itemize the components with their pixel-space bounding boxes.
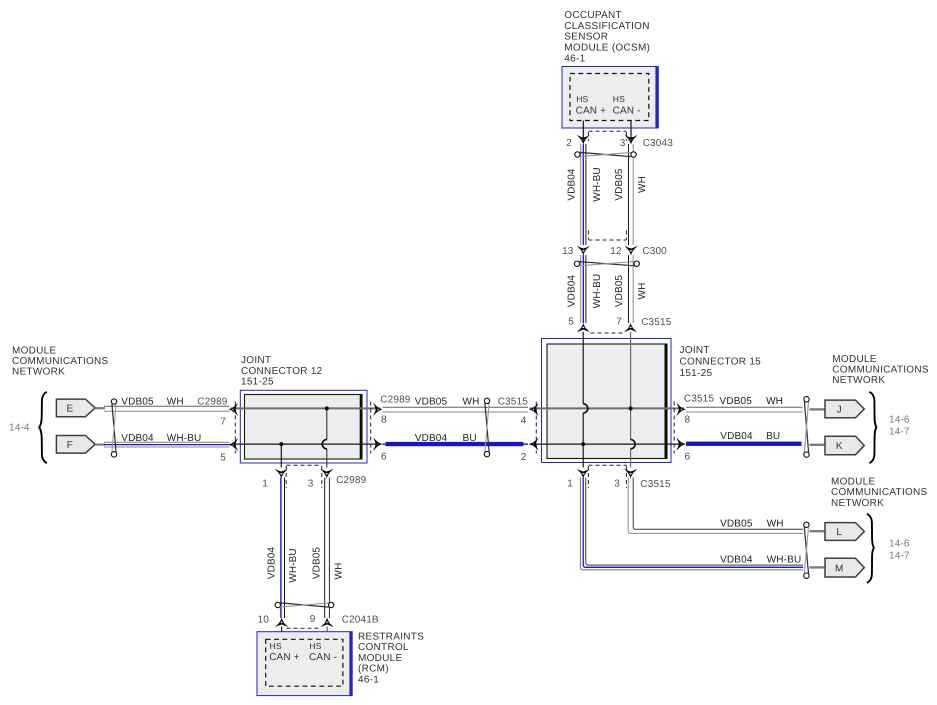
wire VDB05 WH (C2989 to C2041B) [324, 478, 326, 619]
wire OCSM pin3 lead [630, 121, 632, 143]
connector C3515 bottom dashed stubs [587, 466, 589, 488]
svg-text:VDB05: VDB05 [720, 519, 753, 530]
connector C2989 bottom dashed stubs [285, 466, 287, 488]
svg-text:46-1: 46-1 [564, 53, 585, 64]
svg-text:46-1: 46-1 [358, 675, 379, 686]
svg-text:MODULE: MODULE [12, 346, 57, 357]
svg-text:7: 7 [220, 417, 226, 428]
svg-text:BU: BU [463, 433, 477, 444]
jc12 right arrow row2 [373, 438, 383, 451]
svg-text:C3515: C3515 [641, 317, 672, 328]
svg-text:C3515: C3515 [684, 394, 715, 405]
svg-text:C2989: C2989 [336, 475, 367, 486]
svg-text:RESTRAINTS: RESTRAINTS [358, 631, 424, 642]
svg-text:VDB05: VDB05 [415, 397, 448, 408]
wire VDB05 WH (E to C2989) [104, 405, 230, 407]
jc12 internal wire row2 [231, 443, 381, 445]
svg-text:M: M [835, 563, 843, 574]
svg-text:151-25: 151-25 [680, 368, 713, 379]
wire VDB05 WH (C3043 to C300) [628, 144, 630, 245]
wire hop jc12 row2 [322, 440, 327, 449]
connector C3043 arrow pin3 [625, 135, 638, 145]
wire RCM pin9 lead [326, 627, 328, 641]
svg-text:10: 10 [258, 615, 270, 626]
svg-text:COMMUNICATIONS: COMMUNICATIONS [831, 487, 928, 498]
jc12 left arrow row2 [228, 438, 238, 451]
jc15 right arrow row2 [676, 438, 686, 451]
svg-text:C2041B: C2041B [342, 615, 379, 626]
connector C2041B arrow pin9 [321, 618, 334, 628]
svg-text:VDB04: VDB04 [415, 433, 448, 444]
svg-text:7: 7 [616, 317, 622, 328]
svg-text:CONNECTOR 12: CONNECTOR 12 [241, 366, 323, 377]
svg-text:VDB04: VDB04 [567, 275, 578, 308]
svg-text:JOINT: JOINT [241, 355, 271, 366]
junction dot jc15 row1 pin3 wire [629, 406, 633, 410]
svg-text:C3515: C3515 [498, 396, 529, 407]
svg-text:BU: BU [766, 431, 780, 442]
svg-text:1: 1 [567, 479, 573, 490]
brace right (L/M) [867, 514, 874, 583]
joint connector 15 box [542, 339, 672, 463]
svg-text:6: 6 [381, 451, 387, 462]
jc15 bottom arrow pin3 [624, 469, 637, 479]
wire stub J [810, 408, 826, 410]
wire VDB04 WH-BU (C300 to C3515) [580, 255, 582, 323]
svg-text:2: 2 [566, 138, 572, 149]
twisted pair symbol below C300 [579, 262, 634, 266]
jc12 right dashed boundary [370, 402, 372, 454]
module OCSM box [562, 67, 658, 129]
svg-text:COMMUNICATIONS: COMMUNICATIONS [12, 356, 109, 367]
wire VDB05 WH (C3515 to L) [628, 478, 803, 534]
svg-text:14-7: 14-7 [889, 551, 910, 562]
svg-text:MODULE: MODULE [831, 476, 876, 487]
wire stub M [810, 566, 826, 568]
svg-text:NETWORK: NETWORK [831, 498, 884, 509]
svg-text:J: J [837, 405, 842, 416]
svg-text:(RCM): (RCM) [358, 664, 389, 675]
junction dot jc15 row2 pin1 wire [581, 442, 585, 446]
connector C2041B arrow pin10 [275, 618, 288, 628]
svg-text:14-4: 14-4 [9, 423, 30, 434]
svg-text:9: 9 [310, 614, 316, 625]
svg-text:COMMUNICATIONS: COMMUNICATIONS [832, 364, 929, 375]
svg-text:C3043: C3043 [643, 138, 674, 149]
svg-text:OCCUPANT: OCCUPANT [564, 10, 622, 21]
connector L [825, 523, 864, 541]
jc15 internal vertical wire from pin5 to pin1 [582, 332, 584, 468]
jc12 bottom arrow pin1 [275, 469, 288, 479]
wire VDB04 WH-BU (F to C2989) [104, 441, 230, 443]
connector C300 arrow pin12 [625, 246, 638, 256]
connector C3515 bottom dashed line [589, 464, 627, 466]
jc12 right arrow row1 [373, 403, 383, 416]
connector F [56, 436, 95, 454]
svg-text:12: 12 [610, 246, 622, 257]
svg-text:3: 3 [308, 479, 314, 490]
jc15 right dashed boundary [673, 402, 675, 454]
connector C300 arrow pin13 [577, 246, 590, 256]
svg-text:VDB05: VDB05 [720, 396, 753, 407]
svg-text:VDB04: VDB04 [720, 555, 753, 566]
connector C2989 bottom dashed line [287, 464, 322, 466]
svg-text:CAN +: CAN + [269, 652, 299, 663]
svg-text:VDB04: VDB04 [267, 547, 278, 580]
svg-text:CONNECTOR 15: CONNECTOR 15 [680, 357, 762, 368]
jc12 internal vertical wire pin3 [326, 408, 328, 467]
svg-text:151-25: 151-25 [241, 377, 274, 388]
jc15 right arrow row1 [676, 403, 686, 416]
svg-text:CAN -: CAN - [309, 652, 337, 663]
wire VDB04 WH-BU (C3515 to M) [580, 478, 803, 570]
jc15 left dashed boundary [535, 402, 537, 454]
svg-text:VDB05: VDB05 [121, 397, 154, 408]
svg-text:WH-BU: WH-BU [592, 167, 603, 201]
svg-text:VDB04: VDB04 [720, 431, 753, 442]
jc15 left arrow row1 [529, 403, 539, 416]
svg-text:CAN -: CAN - [613, 105, 641, 116]
svg-text:L: L [836, 527, 842, 538]
svg-text:C300: C300 [642, 246, 667, 257]
svg-text:JOINT: JOINT [680, 345, 710, 356]
jc12 internal wire row1 [231, 407, 381, 409]
svg-text:MODULE: MODULE [358, 653, 403, 664]
svg-text:SENSOR: SENSOR [564, 32, 608, 43]
svg-text:5: 5 [220, 453, 226, 464]
joint connector 12 box [240, 390, 367, 463]
svg-text:HS: HS [576, 94, 588, 104]
wire stub F [95, 444, 105, 446]
twisted pair symbol mid (C2989-C3515) [485, 403, 489, 451]
jc12 left arrow row1 [228, 403, 238, 416]
connector C3515 top arrow pin7 [624, 323, 637, 333]
svg-text:6: 6 [685, 451, 691, 462]
svg-text:MODULE (OCSM): MODULE (OCSM) [564, 43, 650, 54]
twisted pair symbol J/K [804, 402, 808, 453]
svg-text:WH: WH [637, 176, 648, 193]
wire VDB04 WH-BU (C3043 to C300) [580, 144, 582, 245]
svg-text:CONTROL: CONTROL [358, 642, 409, 653]
module RCM dashed inner box [266, 639, 343, 686]
wire RCM pin10 lead [281, 627, 283, 641]
svg-text:4: 4 [521, 415, 527, 426]
svg-text:MODULE: MODULE [832, 354, 877, 365]
connector C3043 dashed stubs [587, 132, 589, 141]
svg-text:WH: WH [637, 283, 648, 300]
svg-text:14-6: 14-6 [889, 539, 910, 550]
brace right (J/K) [869, 392, 876, 463]
svg-text:E: E [66, 404, 73, 415]
svg-text:WH-BU: WH-BU [592, 274, 603, 308]
jc12 internal vertical wire pin1 [280, 444, 282, 467]
twisted pair symbol L/M [804, 527, 808, 573]
connector C3515 top arrow pin5 [577, 323, 590, 333]
jc15 left arrow row2 [529, 438, 539, 451]
connector K [825, 436, 864, 455]
svg-text:C2989: C2989 [380, 394, 411, 405]
svg-text:WH-BU: WH-BU [167, 433, 202, 444]
wire VDB05 WH (C300 to C3515) [628, 255, 630, 323]
svg-text:VDB05: VDB05 [614, 275, 625, 308]
connector C3043 dashed line [589, 130, 627, 132]
connector M [825, 558, 864, 577]
svg-text:HS: HS [309, 641, 321, 651]
connector C3515 top dashed line [591, 332, 625, 334]
svg-text:K: K [836, 441, 843, 452]
wire VDB05 WH (C3515 to J) [686, 406, 803, 408]
jc15 internal wire row1 [530, 407, 685, 409]
svg-text:C3515: C3515 [640, 479, 671, 490]
wire stub L [810, 530, 826, 532]
svg-text:C2989: C2989 [197, 397, 228, 408]
svg-text:HS: HS [270, 641, 282, 651]
svg-text:F: F [67, 440, 73, 451]
svg-text:8: 8 [381, 415, 387, 426]
svg-text:WH: WH [766, 396, 783, 407]
junction dot jc12 row1 [325, 406, 329, 410]
connector C300 dashed stubs [587, 231, 589, 240]
connector E [56, 399, 95, 417]
svg-text:NETWORK: NETWORK [12, 367, 65, 378]
svg-text:NETWORK: NETWORK [832, 375, 885, 386]
jc15 bottom arrow pin1 [577, 469, 590, 479]
svg-text:VDB05: VDB05 [312, 547, 323, 580]
svg-text:CLASSIFICATION: CLASSIFICATION [564, 21, 649, 32]
svg-text:VDB05: VDB05 [614, 168, 625, 201]
svg-text:WH: WH [463, 397, 480, 408]
svg-text:1: 1 [262, 479, 268, 490]
svg-text:WH: WH [767, 519, 784, 530]
svg-text:WH: WH [334, 563, 345, 580]
svg-text:CAN +: CAN + [576, 105, 606, 116]
svg-text:WH: WH [167, 397, 184, 408]
jc15 internal vertical wire from pin7 to pin3 [630, 332, 632, 468]
wire OCSM pin2 lead [582, 121, 584, 143]
twisted pair symbol E/F [112, 404, 116, 452]
wire hop jc15 row2 [631, 440, 636, 449]
svg-text:2: 2 [521, 452, 527, 463]
svg-text:5: 5 [568, 317, 574, 328]
connector J [825, 400, 864, 418]
wire stub E [95, 407, 105, 409]
wire VDB04 WH-BU (C2989 to C2041B) [280, 478, 282, 619]
brace left (14-4) [39, 392, 47, 463]
wire VDB04 BU (C2989 to C3515) [383, 443, 529, 445]
twisted pair symbol below C3043 [580, 152, 631, 156]
svg-text:8: 8 [685, 415, 691, 426]
wire hop jc15 row1 [583, 404, 588, 413]
svg-text:HS: HS [613, 94, 625, 104]
svg-text:3: 3 [620, 138, 626, 149]
svg-text:14-7: 14-7 [889, 427, 910, 438]
wire stub K [810, 444, 826, 446]
connector C3043 arrow pin2 [577, 135, 590, 145]
svg-text:VDB04: VDB04 [121, 433, 154, 444]
module OCSM dashed inner box [570, 74, 649, 121]
jc12 bottom arrow pin3 [320, 469, 333, 479]
svg-text:13: 13 [562, 246, 574, 257]
jc12 left dashed boundary [234, 402, 236, 454]
svg-text:3: 3 [614, 479, 620, 490]
connector C300 dashed line [589, 239, 627, 241]
connector C2041B dashed line [287, 627, 322, 629]
wire VDB05 WH (C2989 to C3515) [383, 406, 529, 408]
svg-text:WH-BU: WH-BU [288, 548, 299, 582]
svg-text:VDB04: VDB04 [567, 168, 578, 201]
wire VDB04 BU (C3515 to K) [686, 442, 802, 446]
junction dot jc12 row2 [279, 442, 283, 446]
jc15 internal wire row2 [530, 443, 685, 445]
svg-text:14-6: 14-6 [889, 415, 910, 426]
svg-text:WH-BU: WH-BU [767, 555, 802, 566]
module RCM box [257, 632, 352, 696]
twisted pair symbol above C2041B [280, 603, 329, 607]
